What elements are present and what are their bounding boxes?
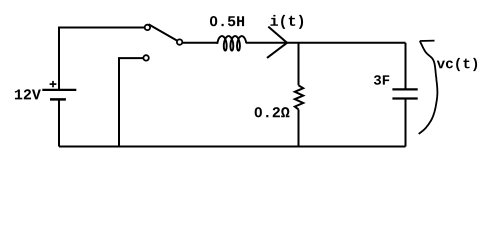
switch S1 blade: [149, 24, 178, 40]
label 0.5H: [210, 16, 244, 26]
wire switch lower contact return: [119, 58, 143, 146]
label vc(t): [437, 58, 477, 71]
wire battery negative lead: [58, 99, 60, 146]
wire resistor branch top: [298, 43, 300, 86]
switch S1 lower contact: [143, 55, 148, 60]
wire capacitor branch top: [405, 43, 407, 90]
label 3F: [374, 75, 389, 85]
resistor R1 zigzag: [295, 85, 303, 109]
wire resistor branch bottom: [298, 109, 300, 146]
wire top-left rail from battery to switch: [59, 28, 145, 91]
current arrow i(t) head: [267, 27, 287, 58]
capacitor C1 bottom plate: [392, 97, 417, 99]
wire switch pivot to inductor: [182, 42, 217, 44]
wire inductor to capacitor corner: [246, 42, 406, 44]
label i(t): [270, 15, 303, 29]
switch S1 top contact: [145, 25, 150, 30]
capacitor C1 top plate: [392, 88, 417, 90]
inductor L1 coil: [217, 36, 246, 51]
vc(t) arrow barb: [420, 40, 435, 42]
label 0.2 ohm: [255, 107, 290, 117]
battery V1 positive plate: [42, 89, 76, 91]
battery plus sign: [50, 81, 57, 87]
wire capacitor branch bottom: [405, 99, 407, 147]
switch S1 pivot contact: [177, 39, 182, 44]
battery V1 negative plate: [50, 98, 66, 101]
vc(t) curved arrow shaft: [419, 41, 438, 134]
wire bottom rail: [59, 146, 406, 148]
label 12V: [15, 89, 41, 99]
